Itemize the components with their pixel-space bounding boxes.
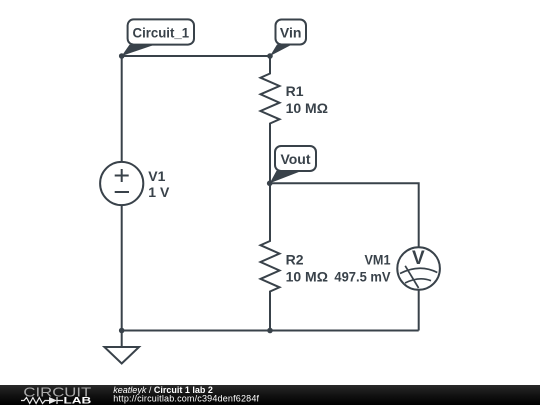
wire V1 bottom to ground rail (121, 205, 123, 330)
flag label Vin (270, 20, 306, 57)
wire left branch down to V1 (121, 56, 123, 162)
svg-text:1 V: 1 V (148, 184, 170, 200)
svg-text:http://circuitlab.com/c394denf: http://circuitlab.com/c394denf6284f (113, 394, 259, 404)
label R1 name (286, 83, 304, 99)
svg-text:LAB: LAB (64, 396, 92, 405)
svg-text:Vout: Vout (280, 151, 310, 167)
svg-text:R2: R2 (286, 252, 304, 268)
resistor R2 (261, 183, 280, 330)
CircuitLab logo CIRCUIT (23, 385, 91, 399)
node Vout junction (267, 181, 273, 187)
node Vin junction (267, 53, 273, 59)
CircuitLab logo LAB (64, 396, 92, 405)
flag label Vout (270, 146, 316, 183)
voltmeter VM1 (397, 247, 440, 290)
svg-text:10 MΩ: 10 MΩ (286, 268, 328, 284)
label R1 value 10 MOhm (286, 100, 328, 116)
svg-text:497.5 mV: 497.5 mV (334, 269, 391, 285)
CircuitLab logo resistor squiggle and diode (21, 397, 63, 404)
svg-text:Circuit_1: Circuit_1 (133, 25, 190, 41)
flag label Circuit_1 (122, 19, 194, 56)
node Circuit_1 junction (119, 53, 125, 59)
node ground junction (119, 328, 125, 334)
wire Vout rail to voltmeter (270, 183, 419, 247)
resistor R1 (261, 56, 280, 183)
label VM1 name (365, 251, 391, 267)
footer bar (0, 385, 540, 405)
label V1 value 1 V (148, 184, 170, 200)
svg-text:V1: V1 (148, 168, 165, 184)
svg-text:Vin: Vin (280, 25, 302, 41)
footer credit line (113, 385, 259, 404)
wire top rail Circuit_1 to Vin (122, 55, 270, 57)
svg-text:R1: R1 (286, 83, 304, 99)
label R2 name (286, 252, 304, 268)
label R2 value 10 MOhm (286, 268, 328, 284)
label V1 name (148, 168, 165, 184)
voltmeter V letter (412, 248, 425, 269)
svg-text:10 MΩ: 10 MΩ (286, 100, 328, 116)
node R2 bottom junction (267, 328, 273, 334)
ground (104, 331, 139, 364)
svg-text:VM1: VM1 (365, 251, 391, 267)
wire voltmeter bottom to rail (418, 290, 420, 331)
voltage source V1 (100, 162, 143, 205)
wire bottom rail (122, 330, 419, 332)
label VM1 reading 497.5 mV (334, 269, 391, 285)
svg-text:V: V (412, 248, 425, 269)
